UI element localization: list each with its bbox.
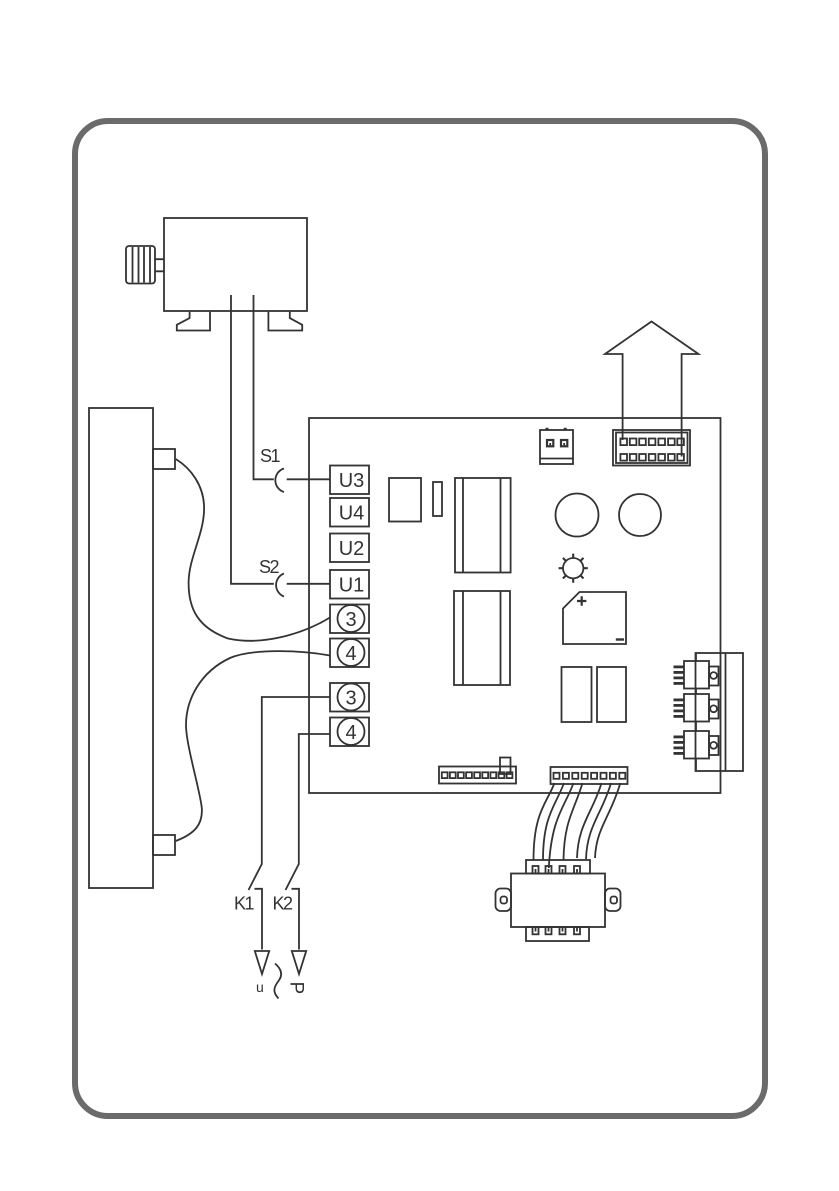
svg-text:U3: U3 xyxy=(339,470,365,492)
svg-text:P: P xyxy=(286,982,307,995)
svg-text:3: 3 xyxy=(345,687,356,709)
svg-text:4: 4 xyxy=(345,643,356,665)
svg-text:K2: K2 xyxy=(273,894,294,914)
svg-text:U2: U2 xyxy=(339,538,365,560)
svg-text:3: 3 xyxy=(345,609,356,631)
svg-text:S1: S1 xyxy=(260,446,281,466)
svg-text:U4: U4 xyxy=(339,503,365,525)
svg-text:U1: U1 xyxy=(339,575,365,597)
svg-text:S2: S2 xyxy=(259,557,280,577)
svg-text:u: u xyxy=(256,979,264,995)
svg-text:K1: K1 xyxy=(234,894,255,914)
svg-text:4: 4 xyxy=(345,722,356,744)
